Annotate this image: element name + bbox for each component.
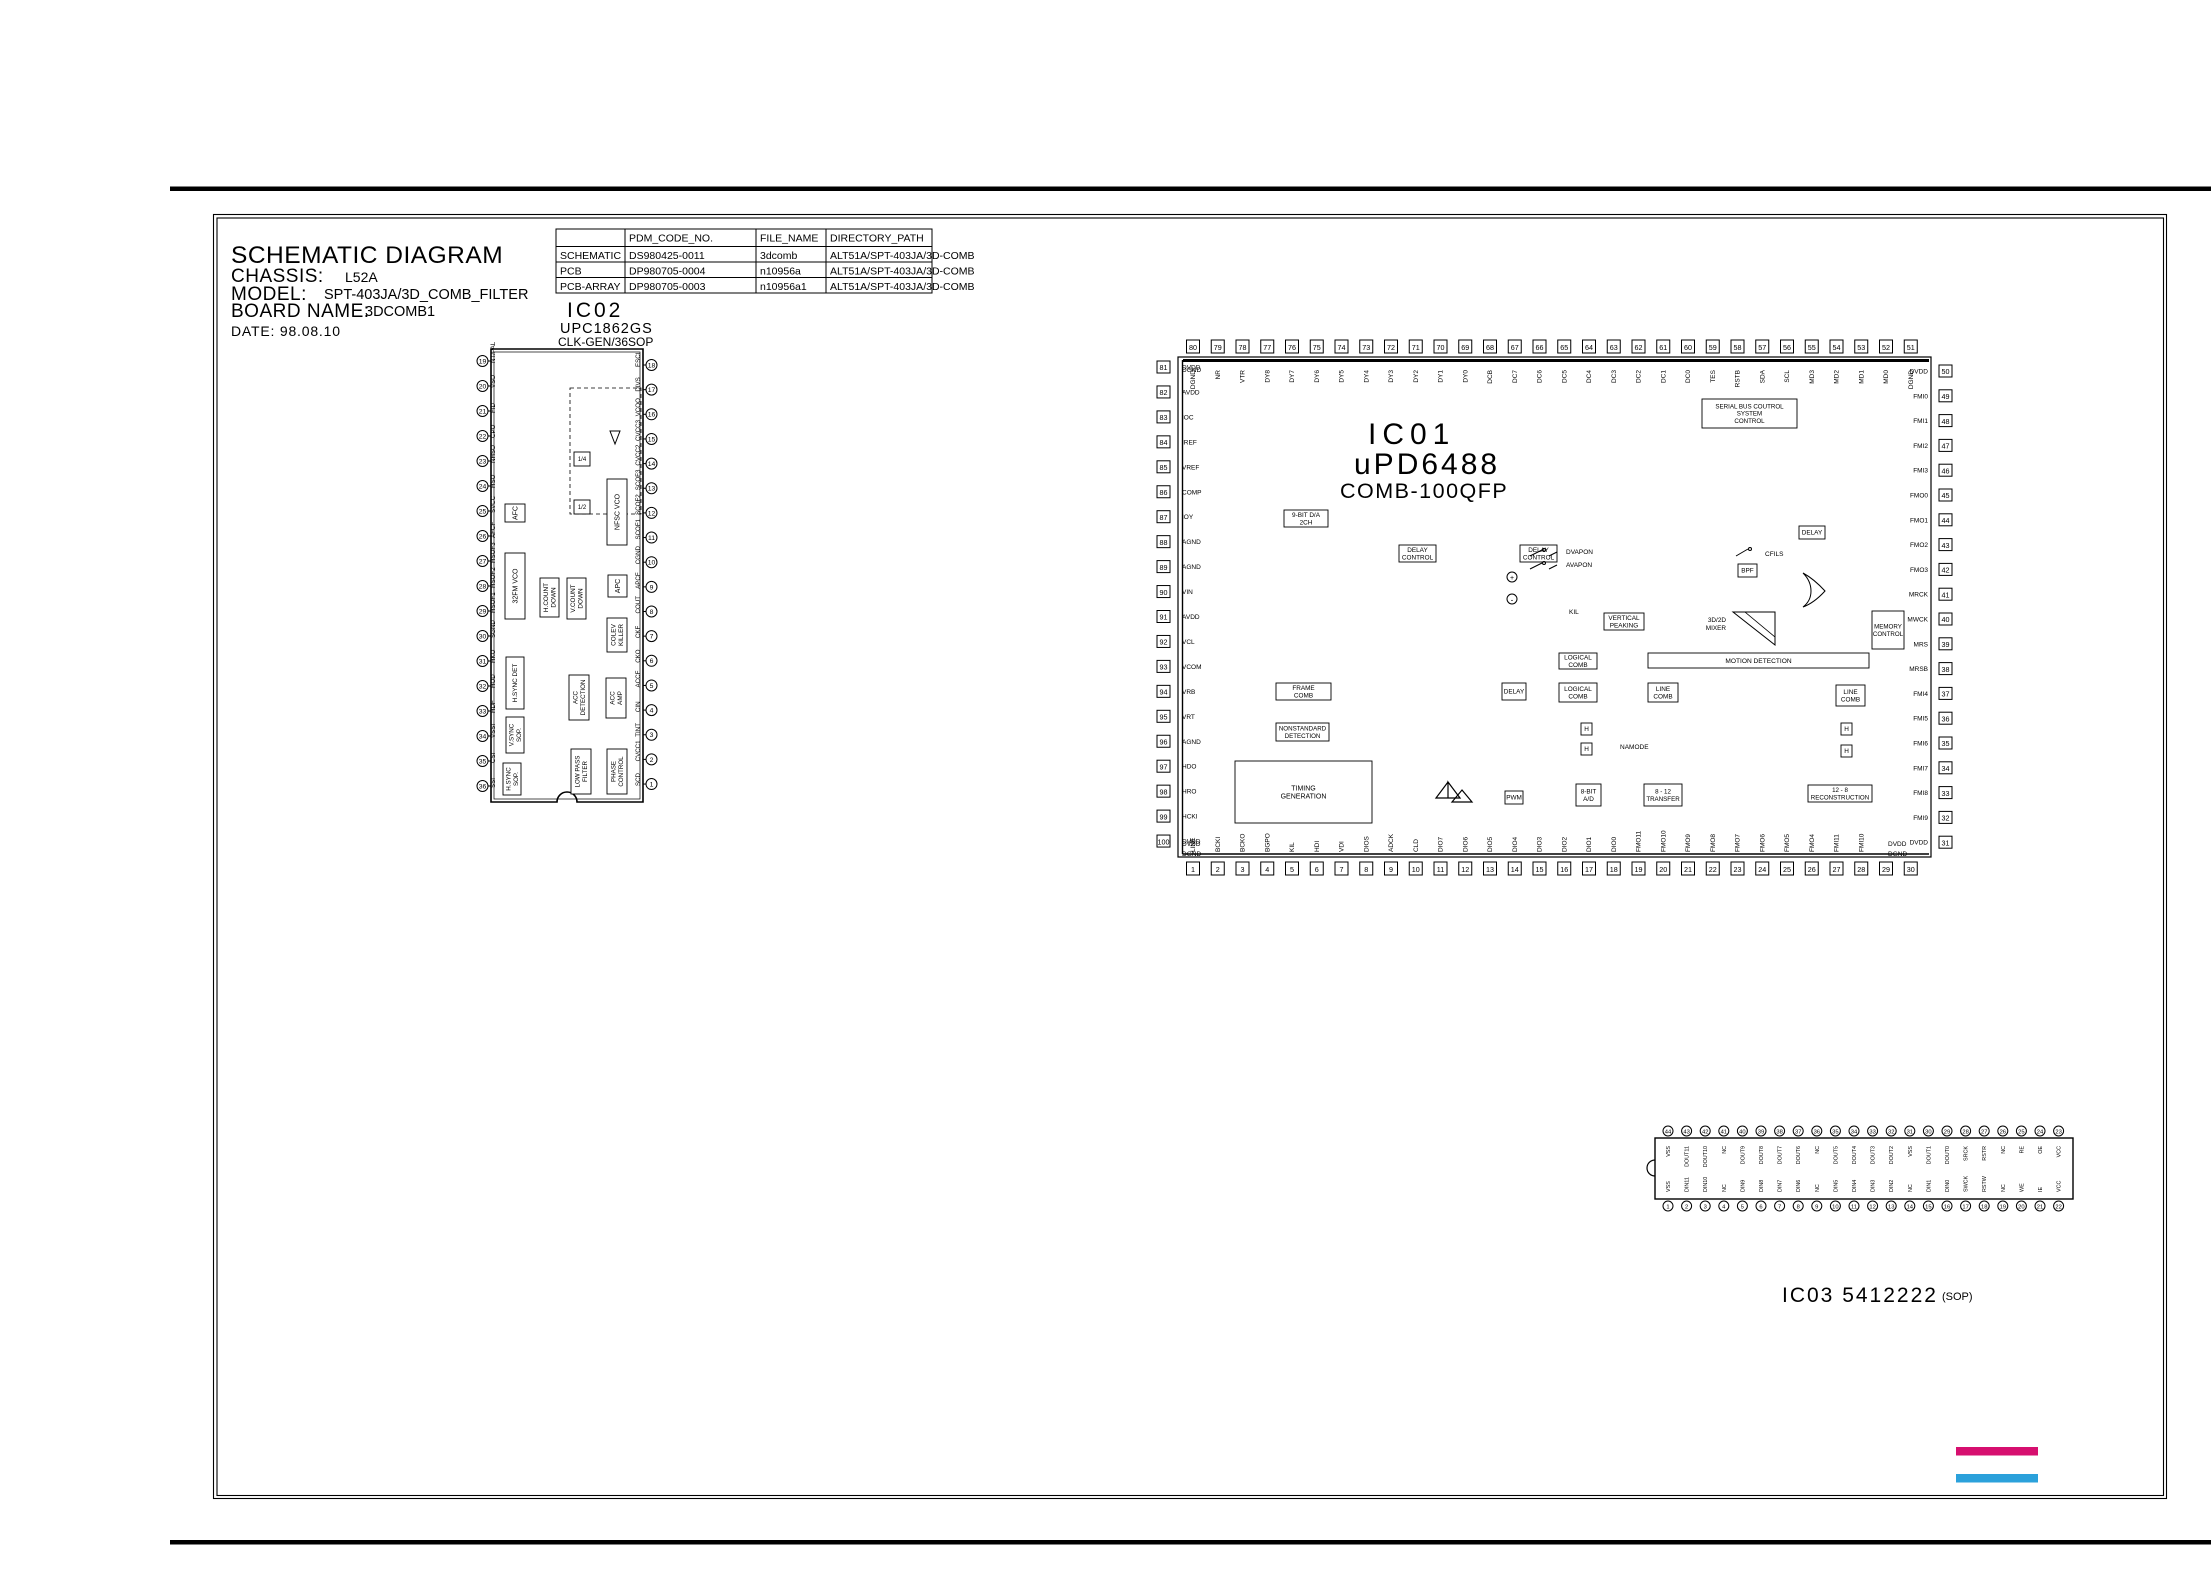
svg-text:98: 98 (1160, 787, 1168, 796)
svg-text:PCB-ARRAY: PCB-ARRAY (560, 281, 620, 293)
svg-text:CVCC2: CVCC2 (635, 444, 642, 466)
svg-text:93: 93 (1160, 663, 1168, 672)
svg-text:HOD: HOD (490, 674, 497, 688)
svg-text:ALT51A/SPT-403JA/3D-COMB: ALT51A/SPT-403JA/3D-COMB (830, 266, 975, 278)
svg-text:52: 52 (1882, 343, 1890, 352)
svg-text:H: H (1584, 726, 1589, 733)
svg-text:TINT: TINT (635, 723, 642, 737)
svg-text:VREF: VREF (1182, 464, 1199, 471)
svg-text:88: 88 (1160, 538, 1168, 547)
svg-text:DIO2: DIO2 (1561, 836, 1568, 852)
svg-text:FMI3: FMI3 (1913, 468, 1928, 475)
svg-text:22: 22 (479, 433, 487, 440)
svg-text:DC5: DC5 (1561, 370, 1568, 383)
svg-text:IC01: IC01 (1368, 418, 1455, 451)
svg-text:MOTION DETECTION: MOTION DETECTION (1725, 658, 1792, 665)
svg-text:DY3: DY3 (1388, 370, 1395, 383)
svg-text:VTR: VTR (1240, 370, 1247, 383)
svg-text:DY4: DY4 (1363, 370, 1370, 383)
svg-text:39: 39 (1758, 1129, 1764, 1135)
svg-text:81: 81 (1160, 363, 1168, 372)
svg-text:FMO4: FMO4 (1809, 834, 1816, 852)
svg-text:6: 6 (1759, 1204, 1762, 1210)
svg-text:36: 36 (1814, 1129, 1820, 1135)
svg-text:DOUT4: DOUT4 (1852, 1146, 1858, 1164)
svg-text:VSSI: VSSI (490, 724, 497, 738)
svg-text:FMO5: FMO5 (1784, 834, 1791, 852)
svg-text:SCOF3: SCOF3 (635, 469, 642, 490)
svg-text:NC: NC (2001, 1184, 2007, 1192)
svg-text:8: 8 (1797, 1204, 1800, 1210)
svg-text:FMI0: FMI0 (1913, 393, 1928, 400)
svg-text:DIN4: DIN4 (1852, 1180, 1858, 1192)
svg-text:17: 17 (648, 387, 656, 394)
svg-text:38: 38 (1942, 665, 1950, 674)
svg-text:6: 6 (650, 658, 654, 665)
svg-text:H: H (1844, 726, 1849, 733)
svg-text:78: 78 (1239, 343, 1247, 352)
svg-text:H.SYNC DET: H.SYNC DET (512, 664, 519, 703)
svg-text:MEMORY: MEMORY (1874, 624, 1902, 631)
svg-text:n10956a1: n10956a1 (760, 281, 807, 293)
svg-text:SCHEMATIC DIAGRAM: SCHEMATIC DIAGRAM (231, 242, 503, 269)
svg-text:DY1: DY1 (1438, 370, 1445, 383)
svg-text:KIL: KIL (1289, 842, 1296, 852)
svg-text:56: 56 (1783, 343, 1791, 352)
svg-text:47: 47 (1942, 442, 1950, 451)
svg-text:RSTR: RSTR (1982, 1146, 1988, 1161)
svg-text:DELAY: DELAY (1504, 689, 1525, 696)
svg-text:21: 21 (2037, 1204, 2043, 1210)
svg-text:DIN1: DIN1 (1926, 1180, 1932, 1192)
svg-text:APCF: APCF (635, 572, 642, 589)
svg-text:BGPO: BGPO (1264, 833, 1271, 852)
svg-text:SVCC: SVCC (490, 495, 497, 513)
svg-text:25: 25 (2018, 1129, 2024, 1135)
svg-text:SWCK: SWCK (1964, 1175, 1970, 1192)
svg-text:DVDD: DVDD (1910, 840, 1929, 847)
svg-text:21: 21 (479, 408, 487, 415)
svg-text:7: 7 (1340, 865, 1344, 874)
svg-text:FMI6: FMI6 (1913, 741, 1928, 748)
svg-text:COMB: COMB (1294, 692, 1313, 699)
svg-text:36: 36 (1942, 714, 1950, 723)
svg-text:DIN7: DIN7 (1778, 1180, 1784, 1192)
svg-text:45: 45 (1942, 491, 1950, 500)
svg-text:53: 53 (1857, 343, 1865, 352)
svg-text:H.COUNT: H.COUNT (543, 583, 550, 612)
svg-text:9-BIT D/A: 9-BIT D/A (1292, 512, 1321, 519)
svg-text:41: 41 (1942, 590, 1950, 599)
svg-text:HSOF1: HSOF1 (490, 592, 497, 613)
svg-text:37: 37 (1942, 690, 1950, 699)
svg-text:TRANSFER: TRANSFER (1646, 796, 1680, 803)
svg-text:48: 48 (1942, 417, 1950, 426)
svg-text:VRT: VRT (1182, 714, 1195, 721)
svg-text:NR: NR (1215, 370, 1222, 380)
svg-text:CLK-GEN/36SOP: CLK-GEN/36SOP (558, 335, 653, 349)
IC03 top pins 44-23 (1663, 1126, 1673, 1136)
svg-text:PHASE: PHASE (611, 761, 618, 782)
svg-text:WE: WE (2019, 1183, 2025, 1192)
svg-text:3: 3 (650, 732, 654, 739)
svg-text:2: 2 (1685, 1204, 1688, 1210)
svg-text:DELAY: DELAY (1407, 547, 1428, 554)
svg-text:ALT51A/SPT-403JA/3D-COMB: ALT51A/SPT-403JA/3D-COMB (830, 281, 975, 293)
svg-text:FMI5: FMI5 (1913, 716, 1928, 723)
svg-text:3dcomb: 3dcomb (760, 250, 798, 262)
svg-text:DETECTION: DETECTION (1285, 733, 1321, 740)
svg-text:DVDD: DVDD (1910, 369, 1929, 376)
svg-text:9: 9 (1815, 1204, 1818, 1210)
svg-text:DELAY: DELAY (1528, 547, 1549, 554)
svg-text:H: H (1584, 746, 1589, 753)
svg-text:35: 35 (1832, 1129, 1838, 1135)
svg-text:DIRECTORY_PATH: DIRECTORY_PATH (830, 233, 924, 245)
svg-text:RSTW: RSTW (1982, 1175, 1988, 1192)
IC01 mixer and gates (1733, 612, 1775, 645)
svg-text:27: 27 (1981, 1129, 1987, 1135)
svg-text:VCOM: VCOM (1182, 664, 1202, 671)
svg-text:22: 22 (2055, 1204, 2061, 1210)
svg-text:43: 43 (1942, 541, 1950, 550)
svg-text:NC: NC (1722, 1146, 1728, 1154)
svg-text:ADCK: ADCK (1388, 833, 1395, 852)
svg-text:DIN5: DIN5 (1833, 1180, 1839, 1192)
svg-text:DIO6: DIO6 (1462, 836, 1469, 852)
svg-text:13: 13 (648, 486, 656, 493)
svg-text:63: 63 (1610, 343, 1618, 352)
svg-text:NC: NC (1815, 1146, 1821, 1154)
svg-text:29: 29 (479, 608, 487, 615)
svg-text:DIN9: DIN9 (1740, 1180, 1746, 1192)
svg-text:DC1: DC1 (1660, 370, 1667, 383)
svg-text:RE: RE (2019, 1146, 2025, 1154)
IC02 internal blocks (505, 504, 525, 522)
IC02 internal dashed region (570, 388, 641, 514)
svg-text:4: 4 (1722, 1204, 1726, 1210)
svg-text:LOGICAL: LOGICAL (1564, 686, 1592, 693)
svg-text:SERIAL BUS COUTROL: SERIAL BUS COUTROL (1715, 403, 1784, 410)
svg-text:ACCF: ACCF (635, 670, 642, 687)
svg-text:27: 27 (1833, 865, 1841, 874)
svg-text:8-BIT: 8-BIT (1581, 789, 1597, 796)
svg-text:NAMODE: NAMODE (1620, 744, 1649, 751)
svg-text:94: 94 (1160, 688, 1168, 697)
svg-text:66: 66 (1536, 343, 1544, 352)
svg-text:FMO1: FMO1 (1910, 517, 1928, 524)
svg-text:65: 65 (1560, 343, 1568, 352)
svg-text:LOW PASS: LOW PASS (575, 756, 582, 788)
IC02 right pins 18-1 (646, 360, 657, 371)
svg-text:AVAPON: AVAPON (1566, 562, 1592, 569)
svg-text:96: 96 (1160, 737, 1168, 746)
svg-text:19: 19 (1635, 865, 1643, 874)
svg-text:8 - 12: 8 - 12 (1655, 789, 1671, 796)
svg-text:DOUT7: DOUT7 (1778, 1146, 1784, 1164)
svg-text:NC: NC (1908, 1184, 1914, 1192)
svg-text:VCC: VCC (2057, 1181, 2063, 1192)
svg-text:4: 4 (650, 708, 654, 715)
svg-text:VSS: VSS (1666, 1146, 1672, 1157)
svg-text:VCC: VCC (2057, 1146, 2063, 1157)
svg-text:PCB: PCB (560, 266, 582, 278)
svg-text:RSTB: RSTB (1735, 370, 1742, 387)
svg-text:31: 31 (1907, 1129, 1913, 1135)
svg-text:VSS: VSS (1908, 1146, 1914, 1157)
svg-text:28: 28 (1857, 865, 1865, 874)
svg-text:41: 41 (1721, 1129, 1727, 1135)
svg-text:59: 59 (1709, 343, 1717, 352)
svg-text:30: 30 (1925, 1129, 1931, 1135)
svg-text:21: 21 (1684, 865, 1692, 874)
svg-text:87: 87 (1160, 513, 1168, 522)
svg-text:NC: NC (1722, 1184, 1728, 1192)
svg-text:IC03 5412222: IC03 5412222 (1782, 1284, 1938, 1307)
svg-text:DY2: DY2 (1413, 370, 1420, 383)
svg-text:32: 32 (479, 683, 487, 690)
svg-text:MD3: MD3 (1809, 370, 1816, 384)
svg-text:25: 25 (1783, 865, 1791, 874)
svg-text:6: 6 (1315, 865, 1319, 874)
svg-text:14: 14 (1907, 1204, 1914, 1210)
svg-text:CONTROL: CONTROL (1734, 418, 1765, 425)
svg-text:SCOF2: SCOF2 (635, 494, 642, 515)
svg-text:DVDD: DVDD (1888, 841, 1907, 848)
svg-text:34: 34 (1851, 1129, 1858, 1135)
svg-text:HKO: HKO (490, 649, 497, 663)
svg-text:69: 69 (1461, 343, 1469, 352)
svg-text:AVDD: AVDD (1182, 614, 1200, 621)
svg-text:26: 26 (479, 533, 487, 540)
svg-text:34: 34 (1942, 764, 1950, 773)
svg-text:COMP: COMP (1182, 489, 1202, 496)
svg-text:20: 20 (2018, 1204, 2024, 1210)
svg-text:54: 54 (1833, 343, 1841, 352)
svg-text:COMB: COMB (1841, 696, 1860, 703)
svg-text:20: 20 (1659, 865, 1667, 874)
svg-text:GENERATION: GENERATION (1281, 793, 1327, 800)
svg-text:SSI: SSI (490, 778, 497, 788)
svg-text:71: 71 (1412, 343, 1420, 352)
svg-text:16: 16 (648, 412, 656, 419)
svg-text:8: 8 (1364, 865, 1368, 874)
svg-text:5: 5 (1741, 1204, 1744, 1210)
svg-text:DIO7: DIO7 (1438, 836, 1445, 852)
svg-text:10: 10 (648, 560, 656, 567)
IC02 left pins 19-36 (477, 356, 488, 367)
svg-text:FMI7: FMI7 (1913, 765, 1928, 772)
IC01 left pins 81-100 (1157, 361, 1170, 373)
svg-text:9: 9 (650, 584, 654, 591)
svg-text:12 - 8: 12 - 8 (1832, 787, 1848, 794)
svg-text:DY8: DY8 (1264, 370, 1271, 383)
svg-text:+: + (1510, 575, 1514, 582)
svg-text:19: 19 (2000, 1204, 2006, 1210)
svg-text:DIVS: DIVS (635, 377, 642, 391)
svg-text:DGND: DGND (1182, 367, 1201, 374)
svg-text:FMI11: FMI11 (1834, 834, 1841, 852)
svg-text:15: 15 (1536, 865, 1544, 874)
IC01 internal blocks (1284, 510, 1328, 527)
svg-text:28: 28 (1962, 1129, 1968, 1135)
svg-text:IC02: IC02 (567, 299, 623, 322)
svg-text:32: 32 (1888, 1129, 1894, 1135)
svg-text:HDI: HDI (1314, 841, 1321, 852)
svg-text:31: 31 (1942, 838, 1950, 847)
svg-text:ESCI: ESCI (635, 352, 642, 367)
svg-text:38: 38 (1776, 1129, 1782, 1135)
svg-text:HSO: HSO (490, 474, 497, 488)
svg-text:FMI2: FMI2 (1913, 443, 1928, 450)
svg-text:34: 34 (479, 733, 487, 740)
svg-text:NFSC VCO: NFSC VCO (614, 493, 621, 530)
svg-text:55: 55 (1808, 343, 1816, 352)
svg-text:AFC: AFC (512, 506, 519, 520)
svg-text:DIO1: DIO1 (1586, 836, 1593, 852)
svg-text:VSS: VSS (1666, 1181, 1672, 1192)
svg-text:SYSTEM: SYSTEM (1737, 411, 1762, 418)
svg-text:CVCC3: CVCC3 (635, 419, 642, 441)
svg-text:DP980705-0003: DP980705-0003 (629, 281, 706, 293)
svg-text:1/2: 1/2 (578, 505, 587, 511)
svg-text:DIN11: DIN11 (1685, 1177, 1691, 1192)
svg-text:NT/PAL: NT/PAL (490, 341, 497, 363)
svg-text:FMO2: FMO2 (1910, 542, 1928, 549)
svg-text:AGND: AGND (1182, 739, 1201, 746)
svg-text:HDF: HDF (490, 700, 497, 713)
svg-text:13: 13 (1888, 1204, 1894, 1210)
svg-text:COMB: COMB (1568, 662, 1587, 669)
svg-text:SCHEMATIC: SCHEMATIC (560, 250, 621, 262)
svg-text:VCL: VCL (1182, 639, 1195, 646)
svg-text:58: 58 (1734, 343, 1742, 352)
svg-text:VRB: VRB (1182, 689, 1195, 696)
svg-text:20: 20 (479, 383, 487, 390)
svg-text:FILE_NAME: FILE_NAME (760, 233, 818, 245)
svg-text:18: 18 (1610, 865, 1618, 874)
svg-text:24: 24 (479, 483, 487, 490)
svg-text:V.SYNC: V.SYNC (509, 723, 516, 746)
document info table (556, 229, 932, 293)
svg-text:68: 68 (1486, 343, 1494, 352)
svg-text:CIN: CIN (635, 701, 642, 712)
svg-text:DOUT3: DOUT3 (1871, 1146, 1877, 1164)
svg-text:92: 92 (1160, 638, 1168, 647)
svg-text:FID: FID (490, 403, 497, 413)
svg-text:40: 40 (1942, 615, 1950, 624)
svg-text:MRS: MRS (1914, 641, 1929, 648)
svg-text:13: 13 (1486, 865, 1494, 874)
svg-text:5: 5 (650, 683, 654, 690)
svg-text:8: 8 (650, 609, 654, 616)
svg-text:BOARD NAME:: BOARD NAME: (231, 301, 370, 322)
svg-text:DC6: DC6 (1537, 370, 1544, 383)
svg-text:100: 100 (1158, 837, 1170, 846)
svg-text:DC7: DC7 (1512, 370, 1519, 383)
svg-text:BPF: BPF (1741, 568, 1754, 575)
IC03 bottom pins 1-22 (1663, 1201, 1673, 1211)
svg-text:DY5: DY5 (1339, 370, 1346, 383)
IC01 bottom pins 1-30 (1187, 862, 1200, 875)
svg-text:80: 80 (1189, 343, 1197, 352)
svg-text:2: 2 (1216, 865, 1220, 874)
svg-text:72: 72 (1387, 343, 1395, 352)
svg-text:76: 76 (1288, 343, 1296, 352)
svg-text:DIN10: DIN10 (1703, 1177, 1709, 1192)
svg-text:15: 15 (648, 436, 656, 443)
svg-text:MD1: MD1 (1858, 370, 1865, 384)
svg-text:TES: TES (1710, 369, 1717, 382)
svg-text:V.COUNT: V.COUNT (570, 584, 577, 612)
svg-text:FMI1: FMI1 (1913, 418, 1928, 425)
svg-text:73: 73 (1362, 343, 1370, 352)
svg-text:DOUT0: DOUT0 (1945, 1146, 1951, 1164)
svg-text:VERTICAL: VERTICAL (1608, 615, 1640, 622)
svg-text:10: 10 (1832, 1204, 1838, 1210)
svg-text:SRCK: SRCK (1964, 1146, 1970, 1161)
svg-text:11: 11 (1851, 1204, 1857, 1210)
svg-text:SGND: SGND (490, 620, 497, 638)
svg-text:26: 26 (1808, 865, 1816, 874)
svg-text:49: 49 (1942, 392, 1950, 401)
svg-text:FMO11: FMO11 (1636, 830, 1643, 852)
page top rule (170, 187, 2211, 192)
page bottom rule (170, 1540, 2211, 1545)
svg-text:FMO9: FMO9 (1685, 834, 1692, 852)
svg-text:23: 23 (2055, 1129, 2061, 1135)
svg-text:FRAME: FRAME (1292, 685, 1314, 692)
svg-text:LINE: LINE (1656, 686, 1670, 693)
svg-text:51: 51 (1907, 343, 1915, 352)
svg-text:18: 18 (648, 362, 656, 369)
svg-text:9: 9 (1389, 865, 1393, 874)
svg-text:FMI9: FMI9 (1913, 815, 1928, 822)
svg-text:1/4: 1/4 (578, 457, 587, 463)
svg-text:3D/2D: 3D/2D (1708, 617, 1726, 624)
svg-text:HSOF2: HSOF2 (490, 567, 497, 588)
svg-text:37: 37 (1795, 1129, 1801, 1135)
svg-text:28: 28 (479, 583, 487, 590)
svg-text:7: 7 (650, 634, 654, 641)
svg-text:DS980425-0011: DS980425-0011 (629, 250, 705, 262)
svg-text:NC: NC (2001, 1146, 2007, 1154)
svg-text:ACC: ACC (573, 690, 580, 704)
svg-text:90: 90 (1160, 588, 1168, 597)
svg-text:A/D: A/D (1583, 796, 1594, 803)
svg-text:57: 57 (1758, 343, 1766, 352)
svg-text:DIO4: DIO4 (1512, 836, 1519, 852)
svg-text:FMI4: FMI4 (1913, 691, 1928, 698)
svg-text:BCKO: BCKO (1240, 834, 1247, 852)
svg-text:12: 12 (1461, 865, 1469, 874)
svg-text:32FM VCO: 32FM VCO (512, 568, 519, 604)
svg-text:VIN: VIN (1182, 589, 1193, 596)
svg-text:DATE: 98.08.10: DATE: 98.08.10 (231, 323, 341, 339)
svg-text:10: 10 (1412, 865, 1420, 874)
cyan color bar (1956, 1474, 2038, 1483)
svg-text:DOUT1: DOUT1 (1926, 1146, 1932, 1164)
svg-text:26: 26 (2000, 1129, 2006, 1135)
svg-text:ALT51A/SPT-403JA/3D-COMB: ALT51A/SPT-403JA/3D-COMB (830, 250, 975, 262)
svg-text:DC4: DC4 (1586, 370, 1593, 383)
IC01 right pins 50-31 (1939, 365, 1952, 377)
svg-text:30: 30 (1907, 865, 1915, 874)
svg-text:DOUT8: DOUT8 (1759, 1146, 1765, 1164)
svg-text:DOUT2: DOUT2 (1889, 1146, 1895, 1164)
svg-text:COMB: COMB (1568, 693, 1587, 700)
svg-text:60: 60 (1684, 343, 1692, 352)
